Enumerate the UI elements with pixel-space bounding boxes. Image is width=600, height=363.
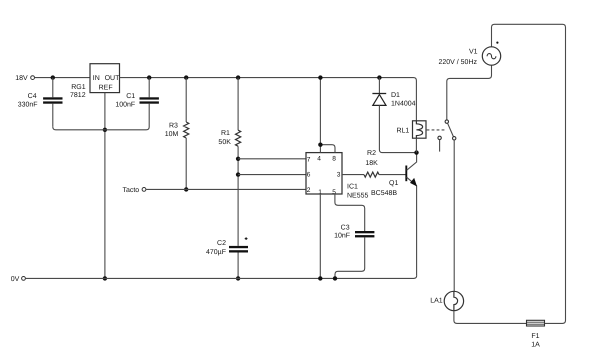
AC source V1 220V/50Hz <box>438 42 500 66</box>
svg-text:F1: F1 <box>531 333 539 340</box>
svg-text:470µF: 470µF <box>206 249 226 256</box>
svg-text:C2: C2 <box>217 240 226 247</box>
node C1 top <box>147 75 151 79</box>
node pin4/8 join <box>318 143 322 147</box>
node D1 top <box>377 75 381 79</box>
wire switch to lamp <box>453 140 455 291</box>
wire REF pin down to 0V rail <box>104 93 106 279</box>
svg-text:7: 7 <box>307 156 311 163</box>
svg-text:RL1: RL1 <box>396 128 409 135</box>
resistor R1 50K <box>218 78 240 246</box>
relay RL1 coil <box>396 121 426 153</box>
capacitor C2 470uF <box>206 237 248 278</box>
wire pins 4+8 to rail <box>320 78 335 153</box>
svg-text:C4: C4 <box>28 93 37 100</box>
IC U1: timer IC1 NE555 <box>306 153 369 200</box>
svg-text:4: 4 <box>317 156 321 163</box>
svg-text:2: 2 <box>307 187 311 194</box>
capacitor C1 <box>115 78 159 109</box>
resistor R3 10M <box>165 78 189 190</box>
node REF sub-rail <box>103 128 107 132</box>
diode D1 1N4004 <box>372 78 416 153</box>
svg-text:50K: 50K <box>218 139 231 146</box>
svg-text:NE555: NE555 <box>347 193 369 200</box>
wire pin 1 to 0V <box>319 194 321 278</box>
svg-text:1A: 1A <box>531 341 540 348</box>
wire 0V rail to emitter <box>26 275 417 278</box>
dashed relay-switch link <box>427 129 446 131</box>
regulator RG1 7812 <box>70 64 120 99</box>
svg-text:C3: C3 <box>341 224 350 231</box>
svg-text:18V: 18V <box>15 75 28 82</box>
wire lamp to fuse <box>454 311 527 324</box>
svg-text:R2: R2 <box>367 150 376 157</box>
capacitor C3 10nF with pin 5 wiring <box>334 194 374 278</box>
svg-text:R1: R1 <box>221 130 230 137</box>
node C4 top <box>51 75 55 79</box>
node REF 0V rail <box>103 276 107 280</box>
svg-text:IN: IN <box>93 75 100 82</box>
svg-text:RG1: RG1 <box>71 84 86 91</box>
svg-text:REF: REF <box>99 85 113 92</box>
svg-text:10nF: 10nF <box>334 233 350 240</box>
wire top rail OUT to relay <box>120 78 417 121</box>
svg-text:6: 6 <box>307 172 311 179</box>
svg-text:Tacto: Tacto <box>122 187 139 194</box>
switch contacts <box>438 120 456 152</box>
svg-text:Q1: Q1 <box>389 180 398 187</box>
wire Tacto to pin 2 <box>146 188 306 190</box>
node R3 top <box>184 75 188 79</box>
svg-text:3: 3 <box>337 172 341 179</box>
wire C4 bottom to C1 bottom <box>53 104 149 130</box>
node R1 top <box>236 75 240 79</box>
fuse F1 1A <box>527 320 545 348</box>
terminal 18V <box>15 75 34 82</box>
node pin6 tap <box>236 172 240 176</box>
svg-text:330nF: 330nF <box>18 101 38 108</box>
lamp LA1 <box>430 291 463 310</box>
terminal Tacto <box>122 187 145 194</box>
node pin5 0V <box>333 276 337 280</box>
resistor R2 18K <box>364 150 379 177</box>
wire fuse up right rail to V1 top <box>492 24 566 323</box>
capacitor C4 <box>18 78 63 127</box>
svg-text:0V: 0V <box>11 276 20 283</box>
wire pin 3 to R2 <box>342 174 364 176</box>
svg-text:OUT: OUT <box>105 75 121 82</box>
node C2 bottom <box>236 276 240 280</box>
svg-text:R3: R3 <box>169 122 178 129</box>
terminal 0V <box>11 276 26 283</box>
svg-text:7812: 7812 <box>70 92 86 99</box>
svg-text:IC1: IC1 <box>347 183 358 190</box>
transistor Q1 BC548B <box>371 152 417 275</box>
svg-text:C1: C1 <box>126 93 135 100</box>
node rail / IC supply <box>318 75 322 79</box>
node pin1 0V <box>318 276 322 280</box>
node relay/diode/collector <box>414 150 418 154</box>
wire V1 bottom to switch <box>447 65 492 120</box>
svg-text:220V / 50Hz: 220V / 50Hz <box>438 58 477 66</box>
node R3 bottom (Tacto line) <box>184 187 188 191</box>
svg-text:1N4004: 1N4004 <box>391 101 416 108</box>
svg-text:V1: V1 <box>469 48 478 55</box>
svg-text:D1: D1 <box>391 92 400 99</box>
svg-text:LA1: LA1 <box>430 298 443 305</box>
svg-text:18K: 18K <box>365 160 378 167</box>
svg-text:8: 8 <box>332 156 336 163</box>
svg-text:5: 5 <box>332 189 336 196</box>
wire 18V to regulator IN <box>35 77 90 79</box>
wire to pin 6 <box>238 174 306 176</box>
wire R2 to base <box>379 174 406 176</box>
svg-text:10M: 10M <box>165 131 179 138</box>
svg-text:100nF: 100nF <box>115 101 135 108</box>
svg-text:BC548B: BC548B <box>371 190 397 197</box>
node pin7 tap <box>236 157 240 161</box>
wire to pin 7 <box>238 158 306 160</box>
